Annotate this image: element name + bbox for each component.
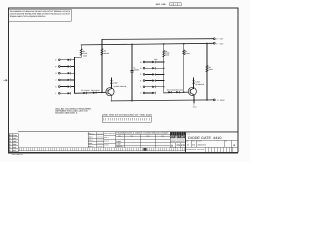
diode D11 xyxy=(168,91,171,94)
node base junction Q2 xyxy=(183,91,185,93)
svg-text:USE THE ETCH BOARD OF THE 4410: USE THE ETCH BOARD OF THE 4410 xyxy=(102,113,152,116)
svg-text:68,000: 68,000 xyxy=(104,52,109,55)
svg-text:SIZE: SIZE xyxy=(186,141,189,143)
diode D13 clamp xyxy=(192,81,195,84)
svg-text:4410-0-1: 4410-0-1 xyxy=(198,144,208,147)
svg-text:D +10V: D +10V xyxy=(216,38,224,41)
input terminal E with diode D1 xyxy=(55,59,75,62)
svg-text:CS: CS xyxy=(177,144,181,147)
input terminal U with diode D18 xyxy=(140,92,156,95)
connector pin strip xyxy=(102,116,151,122)
svg-text:1/2W: 1/2W xyxy=(165,53,169,56)
zone arrow left margin xyxy=(4,79,8,81)
resistor R6 xyxy=(206,65,208,72)
diode D12 xyxy=(176,91,179,94)
wire collector Q2 xyxy=(193,78,195,88)
wire R1 tail xyxy=(80,45,82,57)
svg-text:i: i xyxy=(177,135,178,139)
svg-text:12: 12 xyxy=(171,3,173,6)
node bus stage 1 xyxy=(73,57,75,93)
svg-text:CODE: CODE xyxy=(192,141,195,143)
diode D8 xyxy=(93,91,96,94)
svg-text:4410: 4410 xyxy=(181,144,187,147)
svg-text:E GND: E GND xyxy=(217,99,225,102)
wire R6 branch xyxy=(206,43,208,100)
input terminal F with diode D2 xyxy=(55,65,75,68)
border frame xyxy=(8,8,238,152)
wire bottom common xyxy=(111,100,213,101)
transistor Q2 xyxy=(188,87,196,95)
input terminal T with diode D17 xyxy=(140,86,165,89)
logo sub cells xyxy=(170,143,185,148)
stage 2 input rows xyxy=(140,61,165,95)
DEC digital logo xyxy=(170,132,185,139)
node C1 bottom xyxy=(131,100,133,102)
capacitor C1 plates xyxy=(131,71,134,73)
input terminal L with diode D6 xyxy=(55,92,71,95)
resistor R1 xyxy=(80,49,82,56)
svg-text:A: A xyxy=(233,144,235,147)
svg-text:7: 7 xyxy=(179,3,180,6)
svg-text:l: l xyxy=(184,135,185,139)
notes box xyxy=(8,9,71,21)
note milled channels xyxy=(55,108,91,115)
svg-text:J: J xyxy=(55,79,56,82)
svg-text:NUMBER: NUMBER xyxy=(197,141,202,143)
wire R2 tail xyxy=(101,39,103,92)
node base junction Q1 xyxy=(101,92,103,94)
svg-text:BOARD SEE DWG A: BOARD SEE DWG A xyxy=(55,111,78,114)
input terminal P with diode D15 xyxy=(140,73,165,76)
wire base Q1 xyxy=(74,92,106,93)
signature table xyxy=(88,132,104,148)
input terminal K with diode D5 xyxy=(55,85,75,88)
resistor R4 xyxy=(163,50,165,57)
wire upper +10V rail xyxy=(102,38,213,41)
wire capacitor C1 branch xyxy=(131,44,133,70)
svg-text:C −15V: C −15V xyxy=(216,42,224,45)
node R5 top xyxy=(183,43,185,45)
svg-text:1: 1 xyxy=(175,3,176,6)
svg-text:DIODE GATE 4410: DIODE GATE 4410 xyxy=(188,136,222,140)
svg-text:D8 D-003: D8 D-003 xyxy=(91,89,100,92)
svg-text:EQUIPMENT CORPORATION: EQUIPMENT CORPORATION xyxy=(170,139,184,141)
svg-text:i: i xyxy=(173,135,174,139)
terminal S stub xyxy=(193,100,195,103)
title area xyxy=(185,132,187,153)
input terminal N with diode D14 xyxy=(140,67,165,70)
transistor Q1 xyxy=(106,88,114,96)
first used on table xyxy=(104,132,116,148)
top margin stamp xyxy=(156,3,166,6)
parts list tick row xyxy=(18,148,186,151)
input terminal R with diode D16 xyxy=(140,79,165,82)
terminal C -15V xyxy=(213,42,215,44)
wire R5 branch xyxy=(183,44,185,92)
svg-text:D7 D-003: D7 D-003 xyxy=(81,89,90,92)
wire emitter Q1 xyxy=(110,95,112,101)
resistor R5 xyxy=(183,50,185,55)
input terminal M with diode D10 xyxy=(140,61,165,64)
diode D9 clamp xyxy=(110,81,113,84)
svg-text:REV: REV xyxy=(225,141,228,143)
svg-text:TRANSISTOR & DIODE CONVERSION: TRANSISTOR & DIODE CONVERSION CHART xyxy=(116,132,170,135)
node R6 top xyxy=(206,43,208,45)
terminal D +10V xyxy=(213,38,215,40)
svg-text:CS: CS xyxy=(192,144,196,147)
wire bus jog stage 1 xyxy=(74,56,81,58)
wire emitter Q2 xyxy=(193,95,195,100)
conversion chart xyxy=(116,132,171,148)
node C1 top xyxy=(131,44,133,46)
wire base Q2 xyxy=(164,91,189,94)
revision table xyxy=(9,134,18,152)
wire collector Q1 xyxy=(110,78,112,88)
svg-text:TERMINALS 4410 IN TYPICAL SEQU: TERMINALS 4410 IN TYPICAL SEQUENCE OPERA… xyxy=(10,15,46,18)
terminal E GND xyxy=(213,99,215,101)
wire R4 bus stage 2 xyxy=(163,44,165,93)
node R6 bottom xyxy=(206,99,208,101)
node emitter junction Q2 xyxy=(193,99,195,101)
svg-text:MFG LBB: MFG LBB xyxy=(156,3,166,6)
diode D7 xyxy=(83,92,86,95)
stage 1 input rows xyxy=(55,59,75,96)
node R4 top xyxy=(163,43,165,45)
resistor R2 xyxy=(101,49,103,56)
input terminal H with diode D3 xyxy=(55,72,75,75)
svg-text:1/2W: 1/2W xyxy=(83,54,87,57)
number row xyxy=(186,140,238,152)
wire lower -15V rail xyxy=(81,43,213,45)
input terminal J with diode D4 xyxy=(55,79,75,82)
